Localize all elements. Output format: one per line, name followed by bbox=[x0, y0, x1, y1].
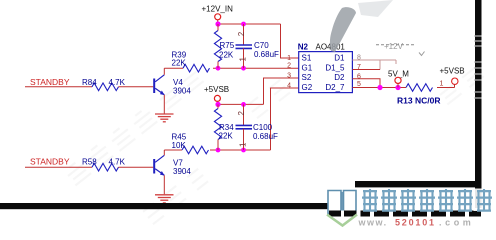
resistor R58 bbox=[92, 163, 119, 171]
logo green chevron bbox=[327, 215, 357, 226]
svg-text:1: 1 bbox=[239, 142, 248, 147]
svg-text:22K: 22K bbox=[219, 131, 234, 140]
wire G2 up to IC pin4 bbox=[271, 88, 299, 150]
svg-text:3904: 3904 bbox=[173, 167, 191, 176]
svg-text:5: 5 bbox=[357, 81, 361, 88]
wire G1 rail to IC pin2 bbox=[213, 67, 299, 69]
resistor R34 bbox=[214, 104, 221, 150]
wire V7 emitter down bbox=[163, 175, 165, 194]
svg-text:2: 2 bbox=[237, 31, 246, 36]
svg-text:6: 6 bbox=[357, 74, 361, 81]
svg-text:10K: 10K bbox=[172, 141, 187, 150]
wire STANDBY to R84 bbox=[25, 86, 92, 88]
white halo behind last glyph over bar bbox=[474, 189, 493, 212]
transistor V4 bbox=[154, 75, 164, 95]
transistor V7 bbox=[154, 155, 164, 175]
wire R84 to V4 base bbox=[119, 86, 154, 88]
logo text 家电维修资料网 (stylized blue calligraphy) bbox=[362, 189, 492, 211]
svg-text:R84: R84 bbox=[82, 78, 97, 87]
svg-text:D1_5: D1_5 bbox=[325, 63, 345, 72]
svg-text:D1: D1 bbox=[334, 54, 345, 63]
wire R58 to V7 base bbox=[119, 166, 154, 168]
svg-text:R13 NC/0R: R13 NC/0R bbox=[397, 96, 440, 106]
wire +5VSB to S2 rail bbox=[216, 101, 218, 104]
junction C100/S2 bbox=[241, 102, 246, 107]
svg-text:R58: R58 bbox=[82, 158, 97, 167]
resistor R39 bbox=[183, 64, 209, 72]
capacitor C100 bbox=[236, 104, 253, 150]
svg-text:1: 1 bbox=[239, 57, 248, 62]
op-amp U1 : dual mosfet N2 box bbox=[299, 52, 353, 93]
svg-text:3904: 3904 bbox=[173, 87, 191, 96]
svg-text:4.7K: 4.7K bbox=[109, 78, 126, 87]
resistor R45 bbox=[182, 146, 208, 154]
wire collector to R39 bbox=[164, 67, 183, 69]
net +12V crossed out bbox=[376, 42, 425, 56]
svg-text:0.68uF: 0.68uF bbox=[254, 50, 279, 59]
wire R13 to +5VSB bbox=[437, 87, 455, 89]
logo book icon bbox=[328, 191, 356, 214]
svg-text:R75: R75 bbox=[220, 41, 235, 50]
wire +12V to IC pin1 bbox=[281, 24, 299, 58]
wire V4 collector up bbox=[163, 68, 165, 75]
svg-text:1: 1 bbox=[440, 81, 444, 88]
svg-text:C100: C100 bbox=[253, 123, 273, 132]
svg-text:G1: G1 bbox=[302, 63, 313, 72]
svg-text:4: 4 bbox=[287, 83, 291, 90]
svg-text:D2: D2 bbox=[334, 73, 345, 82]
svg-text:N2: N2 bbox=[298, 43, 309, 52]
wire collector to R45 bbox=[164, 149, 182, 151]
resistor R13 bbox=[406, 84, 432, 92]
junction 5V_M bbox=[395, 85, 400, 90]
svg-text:S1: S1 bbox=[302, 54, 312, 63]
svg-text:2: 2 bbox=[237, 111, 246, 116]
svg-text:D2_7: D2_7 bbox=[325, 83, 345, 92]
watermark faint diagonal right bbox=[440, 67, 484, 105]
wire D1 pin8 (faded) bbox=[352, 60, 396, 70]
svg-text:+5VSB: +5VSB bbox=[440, 67, 465, 76]
svg-text:3: 3 bbox=[287, 73, 291, 80]
svg-text:2: 2 bbox=[287, 63, 291, 70]
wire STANDBY to R58 bbox=[25, 166, 92, 168]
wire +12V rail bbox=[218, 20, 281, 24]
svg-text:G2: G2 bbox=[302, 83, 313, 92]
svg-text:0.68uF: 0.68uF bbox=[253, 132, 278, 141]
wire D1 pin7 bbox=[352, 69, 380, 71]
watermark faint diagonal text center-bottom bbox=[143, 169, 208, 225]
wire G2 rail bbox=[210, 149, 271, 151]
logo url www.520101.com bbox=[358, 218, 475, 228]
svg-text:+5VSB: +5VSB bbox=[204, 85, 229, 94]
resistor R75 bbox=[214, 24, 221, 68]
wire S2 up to IC pin3 bbox=[264, 78, 299, 104]
wire V7 collector up bbox=[163, 150, 165, 155]
logo black bar bbox=[329, 211, 481, 217]
junction +12V/C70 bbox=[241, 22, 246, 27]
svg-text:.com: .com bbox=[439, 218, 474, 228]
junction +12V/R75 bbox=[215, 21, 220, 26]
wire D2 pin5 / 5V_M rail bbox=[352, 87, 406, 89]
svg-text:STANDBY: STANDBY bbox=[30, 157, 70, 167]
svg-text:+12V: +12V bbox=[384, 42, 404, 51]
wire D2 pin6 bbox=[352, 79, 380, 88]
svg-text:520101: 520101 bbox=[395, 218, 436, 228]
junction R75/G1 bbox=[216, 66, 221, 71]
wire V4 emitter down bbox=[163, 95, 165, 114]
capacitor C70 bbox=[236, 24, 253, 68]
svg-text:4.7K: 4.7K bbox=[109, 158, 126, 167]
junction C100/G2 bbox=[241, 148, 246, 153]
junction R34/G2 bbox=[216, 148, 221, 153]
junction +5VSB/R34 bbox=[215, 102, 220, 107]
wire S2 rail bbox=[218, 103, 264, 105]
watermark faint diagonal text left bbox=[64, 107, 157, 185]
svg-text:S2: S2 bbox=[302, 73, 312, 82]
junction pin5/pin6 bbox=[377, 85, 382, 90]
svg-text:C70: C70 bbox=[254, 41, 269, 50]
svg-text:22K: 22K bbox=[172, 58, 187, 67]
svg-text:+12V_IN: +12V_IN bbox=[202, 5, 234, 14]
svg-text:22K: 22K bbox=[219, 51, 234, 60]
svg-text:www.: www. bbox=[358, 218, 388, 228]
svg-text:1: 1 bbox=[287, 55, 291, 62]
junction C70/G1 bbox=[241, 66, 246, 71]
ground under V7 bbox=[155, 195, 174, 203]
resistor R84 bbox=[92, 83, 119, 91]
border bars (decorative) bbox=[0, 203, 334, 209]
svg-text:STANDBY: STANDBY bbox=[30, 77, 70, 87]
ground under V4 bbox=[155, 114, 174, 122]
